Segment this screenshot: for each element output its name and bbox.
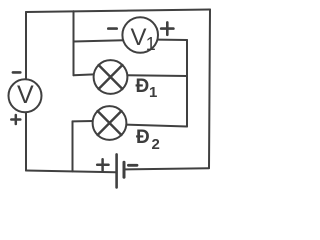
wire bottom-right (from battery - plate) (126, 168, 210, 169)
voltmeter V minus terminal label (13, 71, 20, 74)
wire D1 right (127, 74, 187, 77)
svg-text:1: 1 (149, 84, 157, 101)
voltmeter V plus terminal label (11, 115, 20, 124)
battery B1 (117, 154, 124, 187)
lamp D2 (93, 106, 127, 140)
svg-text:V: V (131, 24, 147, 51)
wire lower-left vertical (lamp D2 left down to bottom wire) (72, 121, 74, 171)
voltmeter V1 plus terminal label (161, 22, 173, 34)
wire right (outer loop) (209, 10, 210, 169)
wire top (outer loop) (26, 10, 210, 13)
wire D2 right (126, 125, 187, 127)
battery - label (128, 164, 137, 167)
wire D2 left (73, 120, 94, 122)
svg-text:V: V (17, 81, 34, 109)
battery + label (97, 159, 108, 170)
wire V1 left branch (74, 40, 124, 41)
wire left (outer loop, passes through voltmeter V) (25, 12, 27, 171)
wire V1 right branch (158, 39, 187, 41)
svg-text:2: 2 (152, 136, 160, 153)
wire bottom-left (to battery + plate) (26, 171, 116, 173)
label D2 (136, 127, 160, 153)
lamp D1 (94, 60, 128, 94)
wire inner-right vertical (V1 right down to lamp D2 right) (186, 40, 188, 127)
wire D1 left (74, 73, 94, 76)
voltmeter V1 (122, 17, 158, 54)
voltmeter V1 minus terminal label (108, 27, 116, 30)
svg-text:1: 1 (146, 34, 156, 54)
wire inner-left vertical (top wire down to lamp D1) (73, 11, 75, 75)
voltmeter V (9, 79, 42, 112)
label D1 (136, 76, 158, 101)
svg-text:Đ: Đ (136, 76, 150, 97)
svg-text:Đ: Đ (136, 127, 150, 148)
